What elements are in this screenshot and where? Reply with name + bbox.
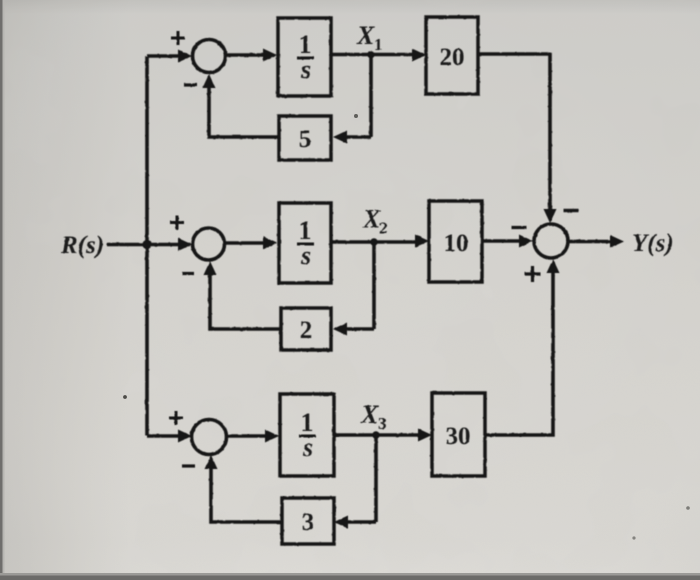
plus sign at summer 3 [169,411,183,425]
integrator block 1/s (row 2) [279,203,331,283]
wire: gain 20 output to right summer (down) [478,54,550,210]
wire: gain 3 output to summer 3 [211,461,282,522]
minus sign on gain-10 input to right summer [512,226,527,229]
stray dot near gain 5 [354,114,358,118]
wire: trunk to summer 3 [147,434,186,438]
arrowhead up into summer 2 [204,261,217,275]
wire: gain 30 output to right summer (up) [485,272,553,435]
wire: gain 10 output to right summer [482,239,521,243]
minus sign at summer 1 [184,83,197,86]
wire: summer 2 to integrator 2 [225,241,266,245]
stray dot left of trunk row 3 [123,395,127,399]
node X1 tap [367,51,375,59]
gain block 2 [281,308,331,350]
label Y(s) [632,230,674,257]
arrowhead into gain 30 [418,429,432,442]
node X2 tap [370,238,378,246]
wire: left trunk vertical [145,56,149,436]
minus sign at summer 3 [182,464,195,467]
arrowhead into summer 1 [178,50,192,63]
wire: feedback into gain 2 [344,327,374,331]
plus sign bottom-left of output summer [525,266,541,282]
arrowhead into summer 2 [178,238,192,251]
wire: summer 1 to integrator 1 [226,53,266,57]
svg-text:X: X [360,400,379,429]
node: trunk / input junction [142,240,151,249]
wire: feedback into gain 3 [345,520,376,524]
arrowhead into gain 10 [415,235,429,248]
wire: X2 feedback down [372,242,376,329]
gain block 10 [429,201,482,282]
wire: gain 5 output to summer 1 [209,80,279,137]
wire: integrator 3 output to gain 30 [334,433,427,437]
arrowhead into gain 2 [333,323,347,336]
label X2 [362,205,388,238]
summing junction S2 [193,228,225,260]
integrator block 1/s (row 1) [278,18,331,96]
svg-text:10: 10 [444,230,469,257]
wire: gain 2 output to summer 2 [210,267,281,329]
summing junction S3 [192,420,227,455]
left shading [0,0,130,580]
minus sign top-right of output summer [564,209,579,212]
svg-text:Y(s): Y(s) [632,230,674,257]
svg-text:1: 1 [374,35,383,54]
arrowhead into right summer [519,235,533,248]
label R(s) [60,232,104,259]
stray dot bottom right [632,536,635,539]
arrowhead into gain 20 [412,49,426,62]
plus sign at summer 2 [170,216,184,230]
svg-text:2: 2 [300,317,313,344]
wire: X3 feedback down [374,435,378,522]
svg-text:3: 3 [378,414,387,433]
arrowhead into summer 3 [178,430,192,443]
svg-text:20: 20 [440,44,465,71]
arrowhead down into right summer [544,209,557,223]
arrowhead up into summer 1 [203,74,216,88]
wire: R(s) input horizontal [107,243,190,247]
minus sign at summer 2 [182,272,194,275]
wire: integrator 1 output to gain 20 [331,53,421,57]
arrowhead into gain 5 [333,131,347,144]
top shading [0,0,700,14]
label X3 [360,400,387,433]
stray dot right edge [686,506,690,510]
plus sign at summer 1 [171,31,185,45]
gain block 3 [282,498,334,544]
gain block 30 [432,393,485,476]
summing junction S1 [193,40,226,73]
integrator block 1/s (row 3) [280,394,334,476]
left photo edge [0,0,3,580]
gain block 5 [279,116,331,160]
svg-text:5: 5 [299,126,312,153]
wire: integrator 2 output to gain 10 [331,240,424,244]
label X1 [356,21,383,54]
summing junction S4 (output) [534,224,568,258]
node X3 tap [372,431,380,439]
wire: output summer to Y(s) [568,240,612,244]
wire: X1 feedback down [369,55,373,138]
arrowhead up into summer 3 [205,455,218,469]
svg-text:3: 3 [302,509,315,536]
arrowhead into integrator 2 [263,237,277,250]
wire: trunk to summer 1 [147,54,186,58]
bottom photo edge [0,573,700,580]
arrowhead up into right summer [547,259,560,273]
arrowhead into gain 3 [334,516,348,529]
wire: summer 3 to integrator 3 [227,434,268,438]
arrowhead at Y(s) [610,235,624,248]
gain block 20 [426,17,478,94]
svg-text:R(s): R(s) [60,232,104,259]
arrowhead into integrator 1 [263,49,277,62]
wire: feedback into gain 5 [344,135,371,139]
svg-text:2: 2 [379,219,388,238]
svg-text:30: 30 [446,423,471,450]
arrowhead into integrator 3 [265,430,279,443]
svg-text:X: X [356,21,375,50]
